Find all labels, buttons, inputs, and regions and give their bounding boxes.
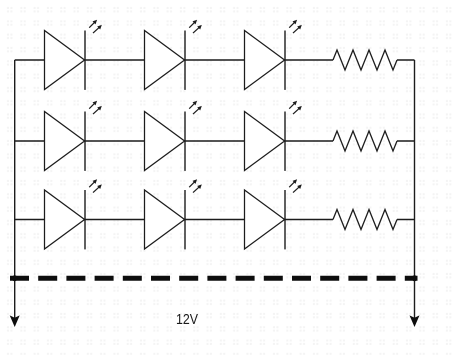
wire: D8 cathode to D9 anode (row 3) (185, 219, 245, 221)
LED D8 (145, 179, 202, 249)
wire: D1 cathode to D2 anode (row 1) (85, 59, 145, 61)
wire: resistor R2 to right bus (row 2) (397, 140, 415, 142)
LED D6 (245, 101, 302, 171)
LED D3 (245, 20, 302, 90)
wire: D5 cathode to D6 anode (row 2) (185, 140, 245, 142)
wire: left bus to LED row 1 anode (15, 59, 45, 61)
wire: right supply bus (vertical) (414, 60, 416, 319)
wire: resistor R1 to right bus (row 1) (397, 59, 415, 61)
wire: D3 cathode to resistor R1 (row 1) (285, 59, 333, 61)
wire: D7 cathode to D8 anode (row 3) (85, 219, 145, 221)
wire: D4 cathode to D5 anode (row 2) (85, 140, 145, 142)
wire: D9 cathode to resistor R3 (row 3) (285, 219, 333, 221)
junction: left bus / 12V rail (12, 275, 18, 281)
12V supply rail (thick dashed wire) (10, 276, 418, 281)
svg-text:12V: 12V (176, 311, 199, 328)
supply arrowhead left (down) (10, 315, 20, 327)
LED D2 (145, 20, 202, 90)
LED D1 (45, 20, 102, 90)
LED D4 (45, 101, 102, 171)
wire: D6 cathode to resistor R2 (row 2) (285, 140, 333, 142)
wire: left supply bus (vertical) (14, 60, 16, 319)
LED D5 (145, 101, 202, 171)
wire: resistor R3 to right bus (row 3) (397, 219, 415, 221)
resistor R2 (333, 131, 397, 151)
resistor R1 (333, 50, 397, 70)
LED D7 (45, 179, 102, 249)
wire: D2 cathode to D3 anode (row 1) (185, 59, 245, 61)
wire: left bus to LED row 3 anode (15, 219, 45, 221)
junction: right bus / 12V rail (412, 275, 418, 281)
resistor R3 (333, 210, 397, 230)
wire: left bus to LED row 2 anode (15, 140, 45, 142)
supply arrowhead right (down) (410, 315, 420, 327)
LED D9 (245, 179, 302, 249)
